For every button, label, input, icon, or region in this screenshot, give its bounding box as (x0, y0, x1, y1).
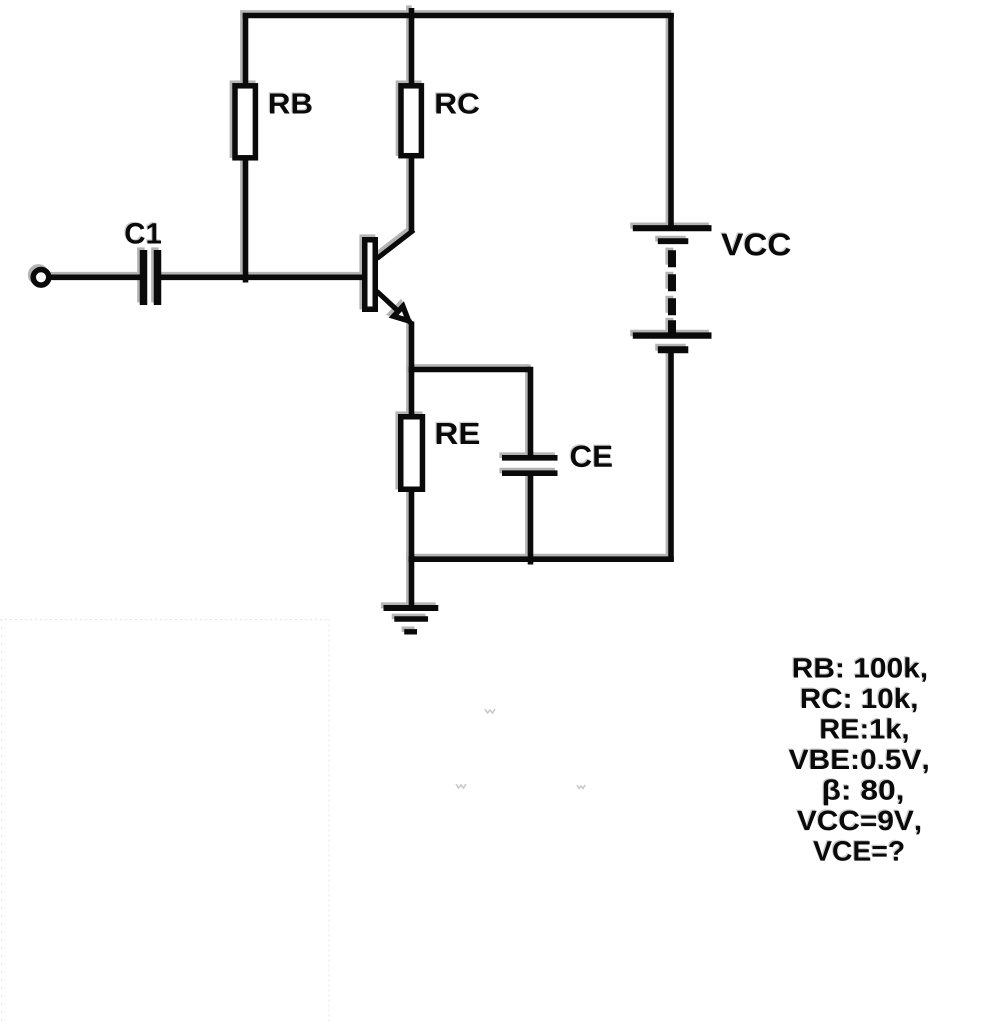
battery VCC bottom cell long plate (633, 332, 712, 338)
capacitor CE top plate (502, 455, 558, 461)
input terminal (33, 270, 49, 286)
capacitor CE bottom plate (502, 470, 558, 476)
label RE (437, 423, 479, 444)
wire terminal to C1 (50, 274, 141, 280)
parameters line 4 (789, 749, 928, 773)
transistor Q1 collector diagonal (377, 230, 414, 259)
resistor RB (235, 86, 255, 158)
transistor Q1 base bar (365, 240, 376, 310)
wire RC branch from rail (409, 8, 415, 86)
wire emitter down (409, 322, 415, 373)
faint smudge 2 (456, 784, 466, 788)
wire battery to ground rail (668, 353, 674, 562)
ground bar 3 (404, 629, 417, 634)
battery VCC dashed link (668, 250, 676, 332)
faint pasted-image right edge (328, 620, 330, 1024)
label CE (571, 446, 612, 468)
faint pasted-image top edge (0, 619, 330, 621)
parameters line 6 (797, 811, 920, 835)
faint smudge 1 (485, 709, 495, 713)
wire top supply rail (243, 13, 674, 19)
wire RC to collector (409, 156, 415, 232)
wire RB to base node (243, 158, 249, 283)
battery VCC bottom cell short plate (658, 346, 689, 353)
parameters line 5 (824, 779, 903, 805)
capacitor C1 right plate (154, 250, 162, 305)
ground bar 2 (394, 616, 428, 622)
faint pasted-image left edge (1, 620, 3, 1024)
label RC (436, 93, 479, 114)
parameters line 2 (802, 688, 917, 713)
transistor Q1 emitter arrow (394, 306, 409, 321)
wire bottom ground rail (409, 556, 674, 562)
resistor RE (401, 417, 423, 490)
wire RE to ground rail (409, 490, 415, 562)
wire CE to ground rail (528, 476, 534, 565)
wire C1 to base (161, 274, 362, 280)
wire rail to battery VCC (668, 13, 674, 228)
battery VCC top cell short plate (658, 238, 689, 244)
parameters line 3 (821, 718, 907, 743)
parameters line 7 (813, 841, 903, 861)
ground bar 1 (384, 605, 439, 611)
wire RB branch from rail (243, 13, 249, 86)
label RB (270, 94, 312, 114)
parameters line 1 (794, 657, 926, 682)
label VCC (721, 233, 790, 255)
battery VCC top cell long plate (633, 225, 712, 231)
wire node to RE (409, 367, 415, 416)
label C1 (125, 223, 161, 244)
wire emitter node to CE (409, 367, 531, 373)
wire ground stem (409, 556, 415, 607)
capacitor C1 left plate (140, 250, 148, 305)
resistor RC (401, 86, 421, 156)
transistor Q1 emitter diagonal (377, 292, 412, 325)
faint smudge 3 (577, 785, 585, 789)
wire CE branch down (528, 367, 534, 455)
